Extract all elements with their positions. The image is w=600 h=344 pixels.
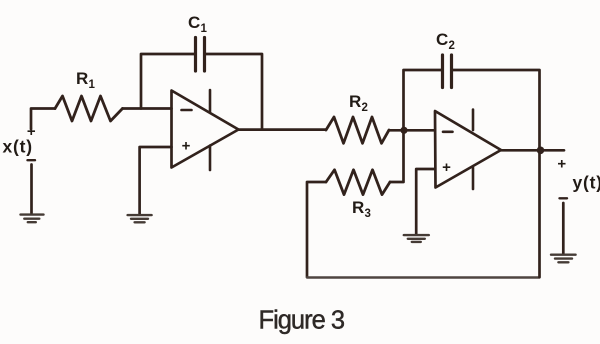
ground under y(t) [551,255,576,263]
wire C2 feedback left riser [404,70,442,130]
svg-text:C: C [436,30,448,49]
node junction at U2 inverting input [400,127,407,134]
label R1 [76,69,96,91]
svg-text:1: 1 [201,23,208,35]
wire R3 to bottom feedback [307,182,326,277]
svg-text:1: 1 [89,79,96,91]
label R2 [349,92,368,114]
svg-text:R: R [349,92,361,111]
wire U1 output to R2 [239,128,327,131]
wire y(t) lower lead [562,203,565,254]
wire bottom feedback run [307,276,540,278]
wire node down to R3 [390,130,404,182]
svg-text:+: + [442,159,451,176]
wire C1 feedback left riser [141,54,194,109]
wire C2 to output riser [453,70,540,150]
wire x(t) lower lead [30,165,33,214]
wire U2 output [501,149,564,152]
svg-text:R: R [76,69,88,88]
svg-text:Figure 3: Figure 3 [259,307,345,335]
resistor R2 [326,117,389,143]
minus sign y(t) polarity [560,197,568,199]
label C2 [436,30,455,52]
ground under U1 [128,215,152,222]
svg-text:R: R [352,198,364,217]
svg-text:y(t): y(t) [573,172,600,192]
svg-text:2: 2 [362,102,368,114]
node output junction [537,147,545,155]
label C1 [188,13,208,35]
resistor R1 [55,96,123,121]
ground under x(t) [21,215,44,223]
op-amp U1 [172,90,239,170]
capacitor C1 [196,38,205,72]
svg-text:+: + [182,138,191,155]
svg-text:+: + [557,156,566,173]
wire R1 to U1 inverting input [123,107,172,110]
wire C1 to U1 output [206,54,262,130]
op-amp U2 [435,110,501,190]
svg-text:3: 3 [365,208,371,220]
wire R2 to U2 inverting input [389,129,435,132]
svg-text:2: 2 [449,40,455,52]
wire input terminal to R1 [31,109,55,130]
capacitor C2 [443,55,452,88]
wire U1 noninverting input to ground [140,147,172,214]
resistor R3 [326,170,390,195]
wire output down riser [538,150,541,277]
minus sign x(t) polarity [28,159,36,161]
label R3 [352,198,371,220]
svg-text:C: C [188,13,200,32]
wire U2 noninverting input to ground [416,169,435,234]
ground under U2 [404,235,429,242]
